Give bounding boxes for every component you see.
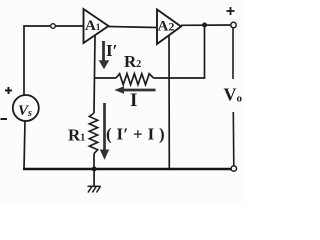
resistor R1 zigzag vertical bbox=[89, 113, 97, 154]
wire A2 bottom down to rail bbox=[168, 35, 170, 169]
plus sign of source bbox=[5, 87, 12, 94]
wire top-left from source to A1 input bbox=[24, 26, 84, 95]
current arrow I' bbox=[99, 41, 110, 69]
wire A1 bottom down to R1 bbox=[94, 36, 95, 114]
svg-text:( I′ + I ): ( I′ + I ) bbox=[106, 125, 165, 144]
output terminal bottom open circle bbox=[231, 166, 236, 171]
wire right vertical upper bbox=[232, 28, 234, 79]
bottom rail wire bbox=[23, 168, 234, 171]
op-amp A1 bbox=[84, 9, 109, 43]
ground stub bbox=[93, 169, 95, 186]
minus sign of source bbox=[1, 118, 8, 120]
current arrow (I'+I) bbox=[100, 103, 109, 160]
output terminal top open circle bbox=[231, 22, 236, 27]
wire A2 output to terminal bbox=[181, 24, 234, 26]
current arrow I bbox=[114, 86, 155, 94]
junction dot output node bbox=[202, 23, 207, 28]
wire R2 left lead to junction bbox=[95, 77, 117, 79]
svg-text:I: I bbox=[130, 90, 137, 111]
ground symbol hatched bbox=[88, 186, 101, 192]
wire right vertical lower bbox=[232, 112, 235, 166]
op-amp A2 bbox=[157, 10, 181, 45]
svg-text:I′: I′ bbox=[106, 41, 117, 60]
wire A1 output to A2 input bbox=[109, 27, 158, 28]
node open circle on top wire bbox=[51, 24, 56, 29]
svg-text:A2: A2 bbox=[158, 19, 175, 35]
resistor R2 zigzag bbox=[116, 74, 154, 85]
wire feedback vertical from output node down to R2 bbox=[154, 27, 205, 78]
junction dot on rail at R1 bbox=[92, 167, 97, 172]
wire R1 bottom to rail bbox=[93, 154, 95, 170]
plus sign at output bbox=[227, 7, 235, 15]
wire source bottom to rail bbox=[24, 121, 25, 169]
source VS circle bbox=[13, 95, 39, 121]
